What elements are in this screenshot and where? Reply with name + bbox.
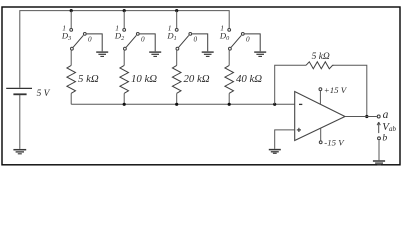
arrow Vab <box>377 122 380 133</box>
wire R2-bus <box>123 93 125 104</box>
switch D1 <box>175 29 207 52</box>
border frame <box>2 7 400 165</box>
wire top rail from battery to D0 <box>20 11 229 88</box>
switch D0 <box>228 29 260 52</box>
ground op-amp plus <box>269 150 281 154</box>
wire R4-bus <box>228 93 230 104</box>
svg-text:+15 V: +15 V <box>324 85 348 95</box>
svg-text:20 kΩ: 20 kΩ <box>184 73 210 85</box>
op-amp plus sign <box>297 128 301 132</box>
wire b-ground <box>378 140 380 160</box>
svg-text:5 V: 5 V <box>37 89 51 99</box>
terminal b <box>378 137 381 140</box>
wire pole-to-resistor D0 <box>228 51 230 66</box>
svg-text:0: 0 <box>141 35 145 43</box>
node bus-feedback <box>273 103 276 106</box>
wire pole-to-resistor D2 <box>123 51 125 66</box>
resistor R1 5k <box>67 65 76 93</box>
node bus-R2 <box>123 103 126 106</box>
node bus-R4 <box>228 103 231 106</box>
svg-text:0: 0 <box>88 35 92 43</box>
terminal a <box>377 115 380 118</box>
wire battery-ground <box>19 95 21 149</box>
ground b <box>373 161 385 165</box>
resistor R4 40k <box>225 65 234 93</box>
wire op-amp plus to ground <box>275 130 295 149</box>
switch D3 <box>70 29 102 52</box>
ground D1 <box>202 52 214 56</box>
node bus-R3 <box>175 103 178 106</box>
svg-text:a: a <box>383 109 389 121</box>
svg-text:D2: D2 <box>114 31 124 42</box>
wire drop D1 <box>176 11 178 29</box>
resistor R2 10k <box>120 65 129 93</box>
op-amp U1 <box>295 92 345 141</box>
wire output <box>345 116 377 118</box>
wire pole-to-resistor D1 <box>176 51 178 66</box>
svg-text:D3: D3 <box>61 31 71 42</box>
svg-text:5 kΩ: 5 kΩ <box>78 73 99 85</box>
pin +15V <box>319 88 322 91</box>
switch D2 <box>123 29 155 52</box>
resistor R3 20k <box>172 65 181 93</box>
node rail-D3 <box>70 9 73 12</box>
wire feedback loop <box>275 65 367 116</box>
wire R1-bus <box>70 93 72 104</box>
svg-text:0: 0 <box>246 35 250 43</box>
battery V1 5V <box>6 88 32 94</box>
ground battery <box>13 150 26 154</box>
svg-text:D0: D0 <box>219 31 230 42</box>
ground D0 <box>254 52 266 56</box>
node feedback-output <box>365 115 368 118</box>
ground D2 <box>149 52 161 56</box>
svg-text:0: 0 <box>194 35 198 43</box>
wire drop D2 <box>123 11 125 29</box>
wire R3-bus <box>176 93 178 104</box>
wire drop D3 <box>70 11 72 29</box>
resistor Rf 5k feedback <box>306 62 334 69</box>
svg-text:D1: D1 <box>166 31 176 42</box>
op-amp minus sign <box>299 103 302 105</box>
svg-text:b: b <box>382 132 387 143</box>
svg-text:40 kΩ: 40 kΩ <box>236 73 262 85</box>
wire pole-to-resistor D3 <box>70 51 72 66</box>
pin -15V <box>320 128 322 140</box>
wire summing bus <box>71 103 295 105</box>
svg-text:5 kΩ: 5 kΩ <box>312 52 330 62</box>
svg-text:10 kΩ: 10 kΩ <box>131 73 157 85</box>
node rail-D1 <box>175 9 178 12</box>
svg-text:Vab: Vab <box>382 121 396 133</box>
node rail-D2 <box>123 9 126 12</box>
svg-text:-15 V: -15 V <box>324 137 345 147</box>
ground D3 <box>96 52 108 56</box>
